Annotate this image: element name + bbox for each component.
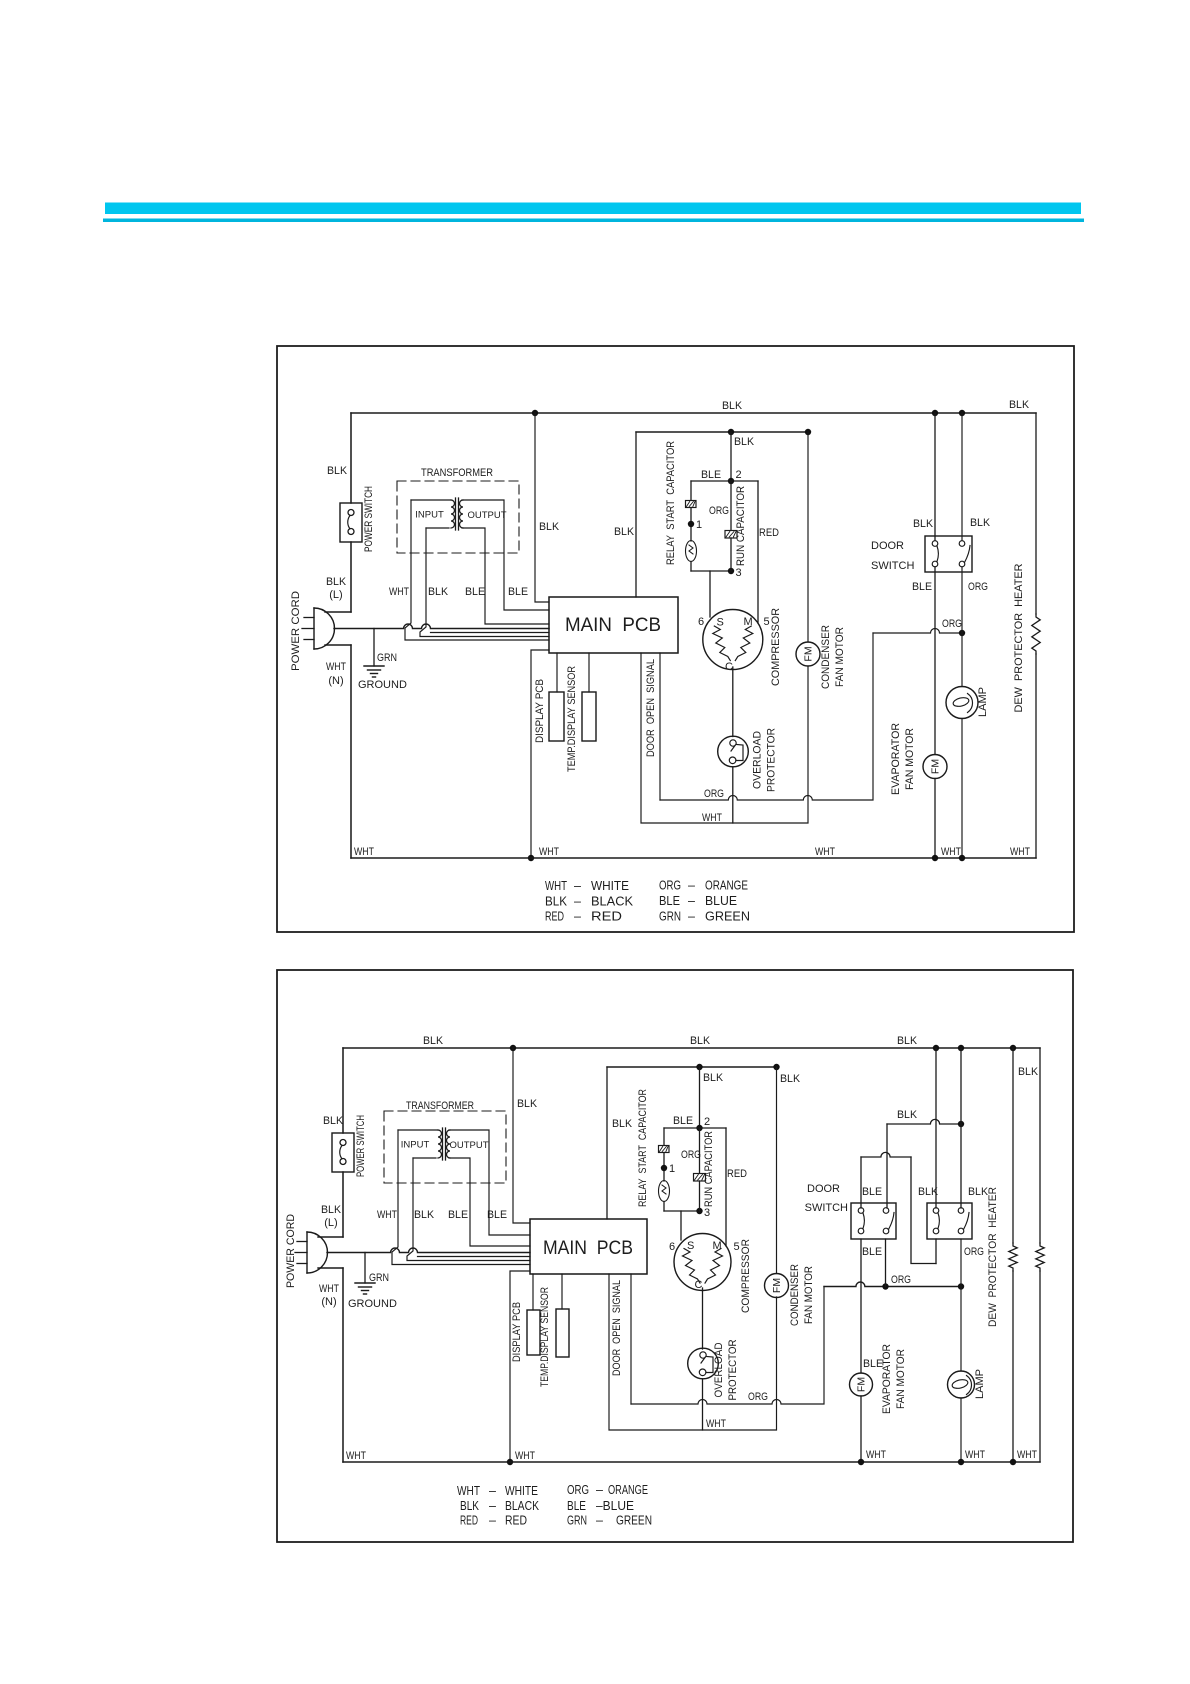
node: bus junction to main pcb drop: [532, 410, 538, 416]
wire: ORG through lamp to WHT bus d2: [960, 1287, 962, 1372]
start capacitor C_start d1: [686, 501, 697, 508]
svg-text:WHT: WHT: [965, 1449, 985, 1461]
wire: run capacitor branch d2: [699, 1128, 701, 1173]
wire: harness line C (BLK) to pcb d2: [407, 1158, 530, 1261]
wire: secondary bottom BLE to pcb d2: [449, 1158, 530, 1246]
overload protector OL2: [688, 1348, 719, 1379]
wire: left BLK drop to power switch: [350, 413, 352, 503]
wire: pcb to temp sensor d2: [561, 1274, 563, 1309]
wire: secondary top BLE to pcb d2: [449, 1130, 530, 1235]
svg-text:BLK: BLK: [321, 1204, 342, 1216]
svg-text:WHITE: WHITE: [505, 1484, 538, 1498]
svg-text:BLE: BLE: [508, 586, 528, 598]
door switch DS2-right contacts: [933, 1208, 939, 1214]
svg-text:BLE: BLE: [863, 1358, 883, 1370]
svg-text:GRN: GRN: [659, 910, 681, 924]
header thin cyan bar: [103, 219, 1084, 223]
transformer T2 dashed enclosure: [384, 1111, 506, 1183]
svg-text:DISPLAY PCB: DISPLAY PCB: [511, 1302, 523, 1362]
svg-text:CONDENSER: CONDENSER: [789, 1264, 801, 1326]
svg-text:BLK: BLK: [897, 1035, 918, 1047]
wire: bottom WHT bus d2: [343, 1461, 1040, 1463]
svg-text:BLK: BLK: [703, 1072, 724, 1084]
svg-text:RED: RED: [505, 1514, 527, 1528]
svg-text:BLK: BLK: [323, 1115, 344, 1127]
svg-text:(N): (N): [328, 675, 343, 687]
node: ORG bus left switch junction: [882, 1283, 888, 1289]
wire: WHT return from pcb to condenser fan: [641, 653, 808, 823]
svg-text:WHT: WHT: [815, 846, 835, 858]
node: relay branch junction: [728, 429, 734, 435]
svg-text:–: –: [574, 910, 581, 924]
node: bus junction pcb drop d2: [510, 1045, 516, 1051]
run capacitor C_run d2: [694, 1174, 706, 1182]
svg-text:WHT: WHT: [377, 1209, 397, 1221]
svg-text:S: S: [687, 1240, 694, 1252]
node: bus junction right door switch left pin: [933, 1045, 939, 1051]
svg-text:1: 1: [696, 519, 702, 531]
power switch S2: [332, 1133, 354, 1172]
svg-text:ORG: ORG: [704, 788, 724, 800]
svg-text:ORG: ORG: [709, 505, 729, 517]
svg-text:OVERLOAD: OVERLOAD: [713, 1342, 725, 1397]
wire: BLE from left switch to evap fan d2: [860, 1239, 862, 1373]
svg-text:DOOR: DOOR: [871, 540, 904, 552]
svg-text:GROUND: GROUND: [358, 679, 407, 691]
wire: RED branch to compressor M: [757, 481, 759, 623]
door switch DS2-left body: [851, 1203, 896, 1239]
svg-text:BLE: BLE: [862, 1246, 882, 1258]
svg-text:GREEN: GREEN: [705, 910, 750, 924]
svg-text:COMPRESSOR: COMPRESSOR: [740, 1239, 752, 1313]
wire: relay block left branch: [690, 481, 692, 500]
svg-text:2: 2: [704, 1116, 710, 1128]
svg-text:BLACK: BLACK: [505, 1499, 540, 1513]
transformer T1 dashed enclosure: [397, 481, 519, 553]
wire: start branch to compressor S: [709, 571, 711, 617]
svg-text:BLK: BLK: [539, 521, 560, 533]
wire: top BLK bus diagram1: [351, 412, 1036, 414]
svg-text:WHT: WHT: [515, 1450, 535, 1462]
wire: relay block left branch d2: [663, 1128, 665, 1145]
wire: bottom WHT bus d1: [351, 857, 1036, 859]
main pcb U1: [549, 597, 678, 653]
door switch wires top d1: [934, 413, 936, 541]
svg-text:WHT: WHT: [389, 586, 409, 598]
svg-text:GROUND: GROUND: [348, 1298, 397, 1310]
wire: compressor C to overload d2: [702, 1288, 704, 1349]
wire: pcb to temp sensor: [588, 653, 590, 692]
dew protector heater R2a: [1009, 1243, 1017, 1271]
transformer T2 core: [442, 1128, 444, 1160]
svg-text:INPUT: INPUT: [401, 1140, 430, 1151]
wire: harness line D (WHT) to pcb: [405, 500, 549, 640]
svg-text:OVERLOAD: OVERLOAD: [752, 731, 764, 789]
svg-text:–: –: [574, 879, 581, 893]
svg-text:1: 1: [669, 1163, 675, 1175]
relay coil K2: [659, 1181, 670, 1202]
svg-text:WHT: WHT: [354, 846, 374, 858]
node: condenser fan branch junction d2: [773, 1064, 779, 1070]
svg-text:FAN MOTOR: FAN MOTOR: [904, 728, 916, 790]
power cord plug P1: [313, 608, 315, 649]
svg-text:–: –: [688, 879, 695, 893]
svg-text:–: –: [688, 910, 695, 924]
svg-text:ORG: ORG: [891, 1274, 911, 1286]
svg-text:OUTPUT: OUTPUT: [467, 510, 506, 521]
wire: second BLK bus d2: [607, 1066, 777, 1068]
wire: BLK link bus to left door switch d2: [887, 1119, 961, 1124]
node: WHT bus evap junction d2: [858, 1459, 864, 1465]
svg-text:ORG: ORG: [748, 1391, 768, 1403]
wire: pcb to display pcb: [556, 653, 558, 692]
wire: link between switches y1157: [861, 1152, 911, 1157]
svg-text:TRANSFORMER: TRANSFORMER: [421, 467, 493, 479]
svg-text:6: 6: [698, 616, 704, 628]
wire: start branch to compressor S d2: [680, 1211, 682, 1240]
svg-text:FM: FM: [803, 646, 815, 661]
svg-text:BLK: BLK: [614, 526, 635, 538]
wire: ORG bus to door switches d2: [824, 1282, 961, 1287]
run capacitor C_run d1: [725, 531, 737, 539]
door switch DS1 body: [925, 536, 972, 572]
node: WHT bus evap fan junction: [932, 855, 938, 861]
node: terminal 1 junction d2: [661, 1165, 667, 1171]
wire: relay feed drop: [730, 432, 732, 481]
svg-text:LAMP: LAMP: [977, 687, 989, 717]
fan motor evaporator FM d2: [850, 1373, 873, 1396]
svg-text:BLK: BLK: [897, 1109, 918, 1121]
node: terminal 3 junction: [728, 568, 734, 574]
svg-text:WHT: WHT: [539, 846, 559, 858]
wire: overload to WHT return: [732, 767, 734, 823]
svg-text:PROTECTOR: PROTECTOR: [727, 1339, 739, 1400]
svg-text:RED: RED: [759, 527, 779, 539]
node: terminal 2 junction: [728, 478, 734, 484]
svg-text:BLE: BLE: [862, 1186, 882, 1198]
ground symbol G2: [355, 1282, 375, 1284]
svg-text:BLK: BLK: [326, 576, 347, 588]
wire: harness line C (BLK) to pcb: [420, 528, 549, 637]
svg-text:ORG: ORG: [567, 1483, 589, 1497]
wire: secondary top BLE to pcb: [462, 500, 549, 610]
svg-text:BLE: BLE: [465, 586, 485, 598]
wire: second bus drop to pcb top: [635, 432, 637, 597]
svg-text:BLK: BLK: [423, 1035, 444, 1047]
svg-text:–BLUE: –BLUE: [596, 1499, 634, 1513]
svg-text:3: 3: [704, 1207, 710, 1219]
wire: power switch to cord: [350, 542, 352, 612]
svg-text:GREEN: GREEN: [616, 1514, 652, 1528]
wire: top BLK bus diagram2: [343, 1047, 1040, 1049]
wire: main cord line to MAIN PCB with crossover hops: [334, 624, 549, 629]
svg-text:SWITCH: SWITCH: [805, 1202, 848, 1214]
wire: relay feed drop d2: [699, 1067, 701, 1128]
wire: second BLK bus d1: [636, 431, 808, 433]
svg-text:GRN: GRN: [567, 1514, 587, 1528]
wire: dew protector heater branch d1: [1035, 413, 1037, 614]
svg-text:ORANGE: ORANGE: [705, 879, 748, 893]
svg-text:DISPLAY PCB: DISPLAY PCB: [534, 679, 546, 743]
compressor motor M1: [703, 610, 763, 670]
wire: bus drop x535 to pcb left edge: [535, 413, 549, 602]
svg-text:ORG: ORG: [942, 618, 962, 630]
svg-text:–: –: [489, 1484, 496, 1498]
diagram 1 outer border: [277, 346, 1074, 932]
wire: condenser fan feed d2: [776, 1067, 778, 1274]
svg-text:FAN MOTOR: FAN MOTOR: [834, 627, 846, 687]
wire: overload to WHT return d2: [702, 1379, 704, 1430]
svg-text:BLE: BLE: [487, 1209, 507, 1221]
wire: GRN ground branch d2: [364, 1253, 366, 1284]
svg-text:FM: FM: [930, 759, 942, 774]
svg-text:3: 3: [736, 567, 742, 579]
wire: relay block bottom edge d2: [664, 1210, 700, 1212]
svg-text:(L): (L): [324, 1217, 337, 1229]
node: WHT bus lamp junction: [959, 855, 965, 861]
transformer T1 primary winding: [451, 500, 455, 528]
svg-text:–: –: [489, 1499, 496, 1513]
svg-text:LAMP: LAMP: [974, 1369, 986, 1399]
svg-text:M: M: [713, 1240, 722, 1252]
wire: harness line B to pcb d2: [418, 1256, 531, 1258]
svg-text:M: M: [744, 616, 753, 628]
dew protector heater R2b: [1036, 1243, 1044, 1271]
svg-text:COMPRESSOR: COMPRESSOR: [770, 608, 782, 686]
svg-text:DOOR OPEN SIGNAL: DOOR OPEN SIGNAL: [611, 1280, 623, 1376]
svg-text:BLK: BLK: [545, 895, 568, 909]
door switch DS2-right body: [927, 1203, 972, 1239]
svg-text:ORG: ORG: [964, 1246, 984, 1258]
wire: second bus drop to pcb top d2: [606, 1067, 608, 1219]
svg-text:RELAY START CAPACITOR: RELAY START CAPACITOR: [637, 1089, 649, 1207]
svg-text:PROTECTOR: PROTECTOR: [766, 728, 778, 792]
relay coil K1: [686, 541, 697, 562]
svg-text:TEMP.DISPLAY SENSOR: TEMP.DISPLAY SENSOR: [539, 1287, 551, 1387]
wire: dew heater B branch d2: [1039, 1048, 1041, 1243]
svg-text:BLE: BLE: [912, 581, 932, 593]
svg-text:POWER CORD: POWER CORD: [290, 591, 302, 671]
svg-text:BLK: BLK: [414, 1209, 435, 1221]
svg-text:BLK: BLK: [734, 436, 755, 448]
node: condenser fan branch junction: [805, 429, 811, 435]
svg-text:BLK: BLK: [970, 517, 991, 529]
compressor motor M2: [674, 1234, 731, 1291]
svg-text:WHT: WHT: [866, 1449, 886, 1461]
wire: primary bottom to BLK drop: [426, 527, 449, 529]
svg-text:INPUT: INPUT: [415, 510, 444, 521]
svg-text:BLK: BLK: [460, 1499, 480, 1513]
node: terminal 3 junction d2: [696, 1208, 702, 1214]
wire: primary top to WHT drop d2: [398, 1129, 438, 1131]
svg-text:BLACK: BLACK: [591, 895, 634, 909]
node: terminal 2 junction d2: [696, 1125, 702, 1131]
wire: GRN ground branch: [373, 629, 375, 667]
transformer T1 core: [455, 498, 457, 530]
svg-text:GRN: GRN: [377, 652, 397, 664]
lamp L2: [948, 1371, 975, 1398]
wire: main cord line to MAIN PCB d2 with hops: [327, 1248, 530, 1253]
door switch DS2-left contacts: [858, 1208, 864, 1214]
ground symbol G1: [364, 665, 384, 667]
wire: left BLK drop to power switch d2: [342, 1048, 344, 1133]
node: bus junction door switch left: [932, 410, 938, 416]
svg-text:SWITCH: SWITCH: [871, 560, 914, 572]
svg-text:RELAY START CAPACITOR: RELAY START CAPACITOR: [665, 441, 677, 565]
svg-text:FM: FM: [771, 1278, 783, 1293]
svg-text:FAN MOTOR: FAN MOTOR: [803, 1266, 815, 1324]
svg-text:2: 2: [736, 469, 742, 481]
wire: relay block top edge: [691, 480, 758, 482]
wire: harness line D (WHT) to pcb d2: [392, 1130, 530, 1265]
svg-text:–: –: [596, 1483, 603, 1497]
svg-text:(N): (N): [321, 1296, 336, 1308]
overload protector OL1: [718, 736, 749, 767]
node: BLK link junction x961: [958, 1121, 964, 1127]
svg-text:MAIN PCB: MAIN PCB: [543, 1238, 633, 1259]
wire: link down right side: [911, 1157, 936, 1264]
wire: left switch right-bottom to ORG bus: [885, 1239, 887, 1287]
svg-text:DEW PROTECTOR HEATER: DEW PROTECTOR HEATER: [1013, 563, 1025, 712]
svg-text:RED: RED: [591, 910, 622, 924]
svg-text:POWER SWITCH: POWER SWITCH: [355, 1115, 367, 1177]
svg-text:BLK: BLK: [918, 1186, 939, 1198]
svg-text:EVAPORATOR: EVAPORATOR: [890, 723, 902, 795]
svg-text:6: 6: [669, 1241, 675, 1253]
header thick cyan bar: [105, 203, 1081, 215]
svg-text:5: 5: [764, 616, 770, 628]
wire: cord neutral to WHT bus d2: [318, 1267, 343, 1269]
svg-text:WHT: WHT: [319, 1283, 339, 1295]
node: WHT bus lamp junction d2: [958, 1459, 964, 1465]
wire: primary bottom to BLK drop d2: [413, 1157, 436, 1159]
wire: power switch to cord d2: [342, 1172, 344, 1237]
svg-text:DOOR: DOOR: [807, 1183, 840, 1195]
svg-text:–: –: [688, 894, 695, 908]
node: ORG joins lamp line: [959, 630, 965, 636]
svg-text:BLE: BLE: [673, 1115, 693, 1127]
wire: ORG door signal from pcb: [659, 653, 661, 800]
svg-text:BLK: BLK: [690, 1035, 711, 1047]
svg-text:WHT: WHT: [702, 812, 722, 824]
node: terminal 1 junction: [688, 521, 694, 527]
node: ORG bus right switch junction: [958, 1283, 964, 1289]
svg-text:BLE: BLE: [659, 894, 680, 908]
svg-text:–: –: [574, 895, 581, 909]
svg-text:C: C: [695, 1279, 703, 1291]
svg-text:WHT: WHT: [1017, 1449, 1037, 1461]
wire: relay block top edge d2: [664, 1127, 726, 1129]
svg-text:BLE: BLE: [567, 1499, 586, 1513]
fan motor condenser FM d2: [765, 1274, 789, 1298]
node: WHT bus junction x510: [507, 1459, 513, 1465]
wire: pcb neutral drop to WHT bus d2: [510, 1271, 530, 1462]
svg-text:WHT: WHT: [326, 661, 346, 673]
door switch DS1 contacts: [932, 541, 938, 547]
svg-text:POWER CORD: POWER CORD: [285, 1214, 297, 1288]
wire: dew heater A branch d2: [1012, 1048, 1014, 1243]
svg-text:ORG: ORG: [968, 581, 988, 593]
wire: right switch left-bottom pin link: [935, 1239, 937, 1264]
svg-text:–: –: [596, 1514, 603, 1528]
svg-text:BLK: BLK: [1018, 1066, 1039, 1078]
transformer T2 primary winding: [438, 1130, 442, 1158]
svg-text:POWER SWITCH: POWER SWITCH: [363, 486, 375, 552]
node: bus junction dew heater A: [1010, 1045, 1016, 1051]
svg-text:BLUE: BLUE: [705, 894, 737, 908]
svg-text:BLK: BLK: [968, 1186, 989, 1198]
lamp L1: [946, 687, 978, 719]
svg-text:WHT: WHT: [1010, 846, 1030, 858]
wire: right switch right pin from bus: [960, 1048, 962, 1208]
svg-text:BLK: BLK: [1009, 399, 1030, 411]
svg-text:RED: RED: [460, 1514, 478, 1528]
svg-text:ORANGE: ORANGE: [608, 1483, 648, 1497]
wire: condenser fan feed: [807, 432, 809, 642]
node: WHT bus junction x531: [528, 855, 534, 861]
dew protector heater R1: [1032, 614, 1040, 654]
main pcb U2: [530, 1219, 647, 1274]
svg-text:WHT: WHT: [941, 846, 961, 858]
svg-text:TEMP.DISPLAY SENSOR: TEMP.DISPLAY SENSOR: [566, 666, 578, 772]
svg-text:BLE: BLE: [448, 1209, 468, 1221]
display pcb module d1: [549, 692, 564, 741]
power cord plug P2: [306, 1232, 308, 1273]
svg-text:BLK: BLK: [327, 465, 348, 477]
svg-text:FM: FM: [856, 1377, 868, 1392]
wire: ORG door signal from pcb d2: [630, 1274, 632, 1404]
wire: compressor C to overload: [732, 667, 734, 737]
svg-text:(L): (L): [329, 589, 342, 601]
node: relay branch junction d2: [696, 1064, 702, 1070]
svg-text:DEW PROTECTOR HEATER: DEW PROTECTOR HEATER: [987, 1187, 999, 1327]
power switch S1: [340, 503, 362, 542]
temp display sensor d1: [582, 692, 596, 741]
svg-text:FAN MOTOR: FAN MOTOR: [895, 1349, 907, 1409]
svg-text:WHT: WHT: [457, 1484, 480, 1498]
svg-text:BLK: BLK: [517, 1098, 538, 1110]
svg-text:RUN CAPACITOR: RUN CAPACITOR: [735, 486, 747, 566]
svg-text:5: 5: [734, 1241, 740, 1253]
svg-text:BLK: BLK: [428, 586, 449, 598]
diagram 2 outer border: [277, 970, 1073, 1542]
svg-text:RED: RED: [545, 910, 564, 924]
transformer T1 secondary winding: [460, 500, 463, 528]
svg-text:WHT: WHT: [346, 1450, 366, 1462]
start capacitor C_start d2: [659, 1146, 670, 1153]
svg-text:WHT: WHT: [706, 1418, 726, 1430]
svg-text:BLK: BLK: [722, 400, 743, 412]
svg-text:CONDENSER: CONDENSER: [820, 625, 832, 689]
wire: right switch right-bottom to ORG bus: [960, 1239, 962, 1287]
svg-text:–: –: [489, 1514, 496, 1528]
wire: BLE to evaporator fan: [934, 567, 936, 755]
svg-text:RED: RED: [727, 1168, 747, 1180]
wire: ORG through lamp to WHT bus: [961, 567, 963, 687]
svg-text:DOOR OPEN SIGNAL: DOOR OPEN SIGNAL: [645, 659, 657, 757]
wire: primary top to WHT drop: [411, 499, 451, 501]
wire: drop to left switch right pin d2: [886, 1124, 888, 1208]
node: bus junction right door switch right pin: [958, 1045, 964, 1051]
svg-text:WHITE: WHITE: [591, 879, 629, 893]
svg-text:BLE: BLE: [701, 469, 721, 481]
wire: secondary bottom BLE to pcb: [462, 528, 549, 624]
wire: RED branch to compressor M d2: [725, 1128, 727, 1246]
wire: bus drop x513 to pcb left edge d2: [513, 1048, 530, 1223]
wire: pcb neutral drop to WHT bus: [531, 650, 549, 858]
wire: run capacitor branch: [730, 481, 732, 530]
wire: right switch left pin from bus: [935, 1048, 937, 1208]
